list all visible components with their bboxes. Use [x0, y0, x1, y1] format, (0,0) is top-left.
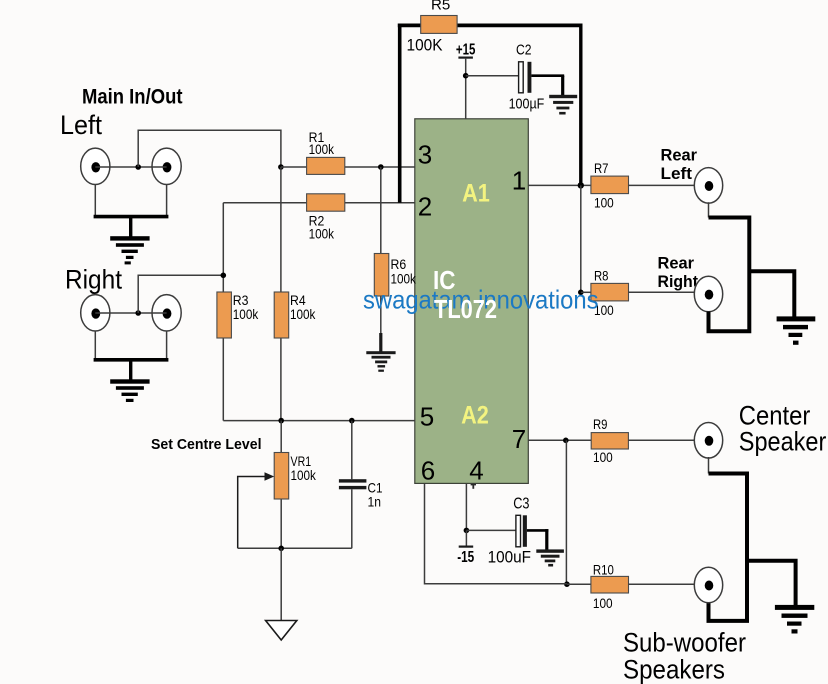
- svg-text:R6: R6: [391, 256, 407, 272]
- svg-text:Rear: Rear: [661, 146, 698, 165]
- svg-text:Speaker: Speaker: [739, 427, 827, 457]
- wire R8 to rear right jack: [629, 291, 696, 293]
- svg-text:Speakers: Speakers: [623, 655, 725, 684]
- resistor R7: [591, 160, 629, 210]
- svg-text:Set Centre Level: Set Centre Level: [151, 437, 262, 453]
- node R8 junction: [578, 290, 584, 296]
- wire left signal up and over: [138, 130, 281, 167]
- svg-text:100k: 100k: [233, 306, 259, 322]
- wire left jacks link: [95, 166, 166, 168]
- wire C2 to ground: [531, 76, 564, 96]
- supply +15 terminal: [456, 42, 476, 119]
- svg-text:1n: 1n: [368, 494, 382, 510]
- node VR1 bottom junction: [278, 546, 284, 552]
- RCA jack rear left: [694, 168, 722, 204]
- svg-text:7: 7: [512, 424, 526, 454]
- wire pin4 to C3: [466, 529, 516, 531]
- svg-text:TL072: TL072: [434, 294, 497, 324]
- wire R8 line: [581, 291, 591, 293]
- wire pin6 feedback: [425, 483, 567, 583]
- svg-text:R9: R9: [593, 416, 608, 432]
- capacitor C2: [509, 43, 545, 113]
- svg-text:Main In/Out: Main In/Out: [82, 86, 183, 109]
- node left signal junction: [135, 164, 141, 170]
- wire pin1 line: [528, 184, 591, 186]
- wire right signal up to R3 node: [138, 275, 223, 313]
- wire pin1 down to R8: [580, 185, 582, 292]
- resistor R1: [307, 129, 345, 174]
- wire rear left jack tail: [708, 202, 710, 217]
- svg-text:6: 6: [421, 456, 435, 486]
- wire right ground bus: [94, 358, 169, 362]
- resistor R5: [407, 0, 458, 55]
- svg-text:Right: Right: [65, 265, 122, 295]
- wire pin7 down to R10: [565, 440, 567, 584]
- svg-text:100: 100: [594, 194, 614, 210]
- svg-text:100uF: 100uF: [488, 548, 531, 566]
- ground chassis triangle: [266, 621, 297, 641]
- wire pin2 line: [223, 202, 414, 204]
- pin4 tick mark: [471, 484, 476, 489]
- wire R9 to center jack: [628, 439, 695, 441]
- svg-text:Sub-woofer: Sub-woofer: [623, 628, 746, 658]
- svg-text:100k: 100k: [290, 306, 316, 322]
- wire left jack ground tails: [94, 184, 96, 215]
- svg-text:5: 5: [420, 402, 434, 432]
- wire rear ground branch thick: [749, 271, 794, 317]
- wire R10 to subwoofer jack: [629, 583, 696, 585]
- wire rear jacks ground loop thick: [709, 218, 750, 332]
- svg-text:Right: Right: [658, 272, 699, 291]
- wire right jack ground tails: [94, 331, 96, 358]
- wire center/sub ground loop thick: [709, 474, 748, 621]
- resistor R2: [307, 194, 345, 242]
- svg-text:100k: 100k: [309, 141, 335, 157]
- svg-text:-15: -15: [457, 549, 474, 566]
- wire right jacks link: [95, 312, 166, 314]
- node R1/R4 junction: [278, 164, 284, 170]
- svg-text:R7: R7: [594, 160, 609, 176]
- node R6 top junction: [378, 164, 384, 170]
- wire C3 to ground: [527, 529, 549, 550]
- resistor R9: [591, 416, 628, 465]
- svg-text:C2: C2: [516, 43, 532, 59]
- wire center jack tail: [708, 457, 710, 474]
- ground C2: [549, 95, 577, 115]
- node R10 junction: [564, 581, 570, 587]
- svg-text:100: 100: [593, 449, 613, 465]
- pot VR1 vertical line: [280, 421, 282, 549]
- ground C3: [536, 549, 564, 566]
- wire pin4 lead: [465, 483, 467, 530]
- wire center ground branch thick: [747, 561, 796, 606]
- wire left ground bus: [94, 215, 169, 219]
- svg-text:100k: 100k: [309, 225, 335, 241]
- RCA jack subwoofer: [694, 567, 722, 603]
- wire R7 to rear left jack: [629, 184, 696, 186]
- RCA jack right input: [152, 295, 181, 331]
- svg-text:100K: 100K: [407, 36, 444, 55]
- RCA jack right output: [81, 295, 110, 331]
- capacitor C1: [339, 421, 383, 549]
- op-amp U1 IC TL072 body: [415, 119, 529, 484]
- pot VR1: [274, 453, 317, 500]
- ground center/sub jacks: [775, 605, 814, 634]
- svg-text:2: 2: [418, 192, 432, 222]
- wire R6 vertical: [380, 167, 382, 351]
- svg-text:Rear: Rear: [658, 254, 695, 273]
- resistor R10: [591, 562, 629, 612]
- node C1 top junction: [349, 418, 355, 424]
- ground left input: [110, 236, 149, 264]
- resistor R3: [217, 292, 259, 338]
- node R4 bottom junction: [278, 418, 284, 424]
- wire to chassis ground: [280, 548, 282, 620]
- wire A2 input line pin5: [223, 420, 414, 422]
- wire R1 line pin3: [281, 166, 415, 168]
- wire R5 feedback loop thick: [398, 24, 583, 203]
- wire R10 line: [567, 583, 591, 585]
- resistor R6: [374, 254, 416, 297]
- svg-text:100k: 100k: [291, 467, 317, 483]
- wire R4 vertical: [280, 167, 282, 421]
- svg-text:C3: C3: [513, 496, 529, 513]
- RCA jack center: [694, 423, 722, 459]
- node right signal junction: [135, 310, 141, 316]
- svg-text:1: 1: [512, 166, 526, 196]
- ground under R6: [366, 333, 395, 372]
- node pin7 junction: [563, 438, 569, 444]
- svg-text:100µF: 100µF: [509, 95, 545, 112]
- wire +15 to C2: [466, 75, 519, 77]
- RCA jack left output: [81, 148, 110, 184]
- svg-text:Left: Left: [60, 110, 102, 140]
- resistor R8: [591, 268, 629, 318]
- resistor R4: [274, 292, 316, 338]
- capacitor C3: [488, 496, 531, 567]
- RCA jack left input: [152, 148, 181, 184]
- svg-text:100: 100: [593, 595, 613, 611]
- wire right node vertical (R2 left to R3): [222, 203, 224, 421]
- svg-text:R5: R5: [431, 0, 450, 14]
- svg-text:+15: +15: [456, 42, 476, 59]
- node pin1 R5 junction: [578, 182, 584, 188]
- svg-text:4: 4: [469, 456, 483, 486]
- node +15 junction: [463, 73, 469, 79]
- RCA jack rear right: [694, 276, 722, 312]
- supply -15 terminal: [457, 530, 474, 566]
- ground rear jacks: [777, 316, 816, 344]
- pot VR1 wiper arrow: [238, 472, 275, 548]
- svg-text:A2: A2: [461, 402, 489, 430]
- svg-text:R10: R10: [593, 562, 614, 578]
- wire pin7 line: [528, 439, 591, 441]
- svg-text:3: 3: [418, 140, 432, 170]
- svg-text:A1: A1: [462, 180, 490, 208]
- node R3 top junction: [221, 273, 227, 279]
- ground right input: [110, 379, 149, 402]
- svg-text:Left: Left: [661, 164, 693, 183]
- wire VR1 bottom bus: [238, 547, 352, 549]
- svg-text:R8: R8: [594, 268, 609, 284]
- node pin4 junction: [464, 528, 470, 534]
